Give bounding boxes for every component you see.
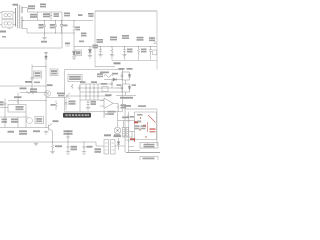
labels above bus2 right part	[64, 13, 70, 15]
secondary section box	[65, 70, 123, 112]
label left of T3	[95, 148, 102, 150]
capacitor C18	[67, 130, 70, 142]
mid vertical	[125, 80, 127, 84]
bus 2	[22, 20, 93, 22]
label D10	[25, 81, 32, 83]
capacitor ticks on rail	[31, 78, 34, 80]
main control box	[95, 11, 157, 70]
corner wires	[129, 141, 141, 153]
bus 1	[28, 11, 63, 13]
pin labels in relay box	[135, 125, 146, 129]
rail inside box	[96, 46, 157, 48]
net drop x62	[61, 12, 63, 48]
lower rail in box	[112, 60, 157, 62]
outer box right edge	[156, 109, 158, 146]
resistor R14	[111, 47, 113, 55]
ground GND9	[66, 152, 70, 155]
transformer T1 primary winding	[15, 8, 17, 27]
dark label bar	[63, 113, 91, 118]
T3 transformer area	[96, 142, 104, 146]
junction dots rail x46	[45, 66, 46, 101]
optocoupler IC2 box	[8, 105, 26, 113]
transformer T1 core	[18, 5, 20, 29]
capacitor C12	[4, 99, 7, 118]
diode D6	[88, 47, 91, 56]
left rail x32	[31, 65, 33, 93]
capacitor C9	[99, 47, 102, 55]
label C10	[122, 35, 129, 37]
capacitor C10	[123, 47, 126, 55]
junction dots top buses	[44, 20, 75, 34]
bottom bus y142	[0, 141, 96, 143]
wire secondary bottom tap	[22, 29, 27, 34]
ground GND1	[42, 33, 46, 40]
pin grid wires	[66, 84, 123, 112]
vertical drops to bottom bus	[5, 112, 26, 128]
label C1	[50, 24, 55, 26]
label AC input	[0, 31, 6, 33]
labels in grid	[80, 81, 86, 83]
red diagonal mark	[138, 115, 156, 132]
diode D6a at x74	[72, 47, 75, 58]
varistor RV1	[43, 21, 46, 34]
wire secondary top tap	[22, 8, 28, 13]
label above coil	[103, 72, 109, 74]
output wire	[116, 92, 136, 96]
buzzer LS1	[114, 127, 121, 134]
resistor R22	[78, 86, 80, 91]
tall rail x46	[45, 52, 47, 128]
labels below y117	[2, 119, 8, 121]
label near D2	[63, 25, 68, 27]
connector J2	[122, 128, 129, 137]
label output	[120, 97, 133, 99]
capacitor C14	[65, 103, 68, 105]
label GND	[41, 41, 47, 43]
wire second row y100.5	[8, 100, 46, 102]
diode D2	[60, 21, 63, 34]
ground GND2	[88, 56, 92, 59]
label R12	[20, 88, 27, 90]
capacitor C20	[83, 142, 86, 152]
label D5	[65, 43, 70, 45]
bus 3	[27, 32, 75, 34]
label RV1	[39, 24, 44, 26]
ground GND3	[98, 55, 102, 58]
vertical component x112	[111, 80, 113, 88]
label F1	[40, 4, 46, 6]
labels mid	[117, 84, 122, 86]
resistor R40	[51, 142, 53, 151]
diode pair bottom	[121, 84, 131, 92]
ground GND5	[122, 55, 126, 58]
box bottom emphasis	[95, 66, 115, 68]
IC U2 box	[68, 75, 82, 82]
line filter L1 lower	[2, 20, 13, 27]
ground GND2a	[72, 57, 76, 60]
ground GND7	[44, 131, 48, 135]
label rows above bottom bus	[8, 131, 15, 133]
zener diode ZD1	[73, 21, 76, 47]
component left of inner box	[127, 112, 130, 143]
inductor L2 coil	[104, 75, 113, 77]
small smudge top left of long wire	[2, 36, 6, 38]
R18 row	[46, 97, 66, 99]
rail to diode D6	[74, 46, 96, 48]
outer box left edge	[124, 109, 126, 153]
wire bottom long	[0, 47, 62, 49]
wire mid y86	[0, 85, 46, 87]
diode D7	[104, 78, 116, 81]
transistor Q4 circle	[27, 118, 33, 124]
wire right at y120.5	[118, 120, 135, 122]
wire connector right	[129, 131, 135, 133]
ground GND4	[110, 55, 114, 58]
ground GND8	[50, 151, 54, 154]
wire to buzzer	[117, 112, 119, 127]
label D12	[114, 134, 121, 136]
ground GND6	[86, 108, 90, 111]
title block box 2	[140, 157, 158, 161]
label U3	[105, 94, 112, 96]
transistor Q3	[44, 90, 50, 96]
pin grid verticals	[86, 84, 98, 100]
diode D8 top of rail	[44, 53, 48, 60]
label T3	[104, 134, 111, 136]
box top edge emphasis	[95, 10, 157, 12]
junction dots rail	[100, 46, 151, 47]
labels below opamp	[108, 111, 116, 113]
label T1	[13, 4, 19, 6]
transistor Q2	[66, 93, 70, 99]
wire connector to relay box	[122, 121, 135, 141]
boxed label C3	[34, 71, 42, 78]
resistor R21	[71, 84, 73, 89]
component box mid grid	[102, 87, 108, 92]
red component marks	[130, 117, 156, 145]
smudges left of box	[81, 33, 87, 35]
labels in inner box	[137, 114, 143, 116]
ground GND10	[82, 152, 86, 155]
capacitor C15	[87, 100, 90, 108]
wire filter to primary top	[13, 12, 16, 14]
label Q3	[47, 84, 53, 86]
label ZD1	[76, 27, 81, 29]
wire resistor row y92.5	[20, 92, 46, 94]
line filter L1 upper	[2, 12, 13, 19]
bottom heavy line	[126, 152, 160, 154]
label above connector	[122, 117, 129, 119]
label above outer box	[124, 105, 131, 107]
transistor Q5	[46, 124, 53, 132]
label D1	[28, 5, 35, 7]
output cluster labels	[119, 68, 125, 70]
junction dots bus	[52, 141, 85, 142]
ground on bus	[34, 142, 38, 146]
wire row y117	[0, 116, 28, 118]
resistor R19	[55, 101, 57, 111]
label below box	[100, 72, 105, 74]
AC input terminals	[0, 13, 2, 25]
label T2	[114, 62, 121, 64]
transformer T1 secondary winding	[21, 7, 23, 29]
label LS1	[114, 135, 122, 137]
wire filter to primary bottom	[13, 24, 16, 26]
resistor R12	[26, 91, 34, 93]
inner box with red	[135, 112, 157, 140]
emitter wire down	[52, 131, 54, 142]
wire top join	[32, 66, 46, 68]
component on right edge	[154, 42, 157, 44]
label D2	[54, 13, 60, 15]
grid junction dots	[85, 87, 118, 96]
capacitor C1	[54, 21, 57, 34]
wire T3 right	[115, 145, 125, 147]
label near C18	[64, 130, 73, 132]
bottom right outer box top	[125, 108, 157, 110]
capacitor C19	[67, 142, 70, 152]
label R20	[137, 37, 144, 39]
wire secondary mid tap	[22, 20, 24, 22]
fuse F1 box on bus1	[43, 13, 50, 15]
capacitor C11	[149, 47, 152, 55]
vertical x66	[65, 98, 67, 111]
label right of D6	[93, 45, 99, 47]
title block box 1	[140, 143, 158, 149]
terminal marks	[8, 28, 12, 30]
label R14	[110, 37, 117, 39]
boxed label right of rail	[50, 69, 58, 76]
wire into IC2	[0, 107, 8, 109]
diode D12	[117, 138, 120, 150]
label Q5	[53, 120, 59, 122]
transistor Q6	[104, 110, 108, 118]
label C9	[97, 39, 104, 41]
resistor R30	[117, 103, 119, 112]
bottom-left bus y127.5	[0, 127, 46, 129]
boxed component right of Q4	[35, 117, 44, 124]
boxed label C8	[75, 50, 82, 56]
label C11	[149, 37, 155, 39]
resistor R20	[137, 47, 139, 55]
diode pair top	[121, 72, 131, 80]
T3 winding boxes	[104, 140, 109, 155]
op-amp U3	[104, 98, 113, 109]
resistor R15	[17, 99, 19, 105]
